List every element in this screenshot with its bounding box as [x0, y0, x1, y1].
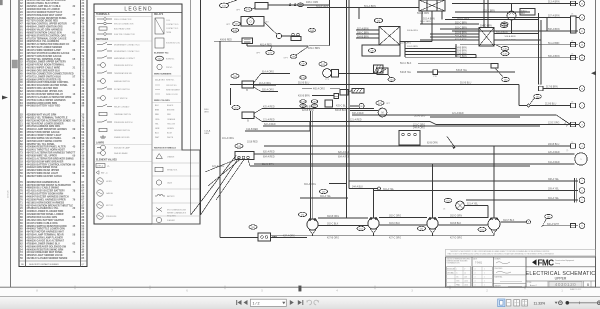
wire 427 bus [309, 230, 312, 234]
svg-text:408-C ORN: 408-C ORN [306, 2, 318, 4]
svg-text:BULKHEAD CONN: BULKHEAD CONN [114, 27, 131, 30]
svg-text:SERIAL NOS.: SERIAL NOS. [167, 169, 178, 172]
proprietary notice box [446, 249, 596, 256]
svg-text:425-A RED: 425-A RED [263, 106, 275, 109]
zoom slider mid tick [579, 302, 581, 305]
relay K1 box [255, 3, 268, 10]
connector pin 13 [579, 15, 585, 21]
wire diagonal bus B to key switch [200, 158, 239, 216]
svg-text:304-A ORG: 304-A ORG [304, 183, 316, 186]
wire vertical 409 [329, 0, 331, 46]
svg-text:62-B ORN: 62-B ORN [427, 142, 438, 144]
zone numbers [36, 289, 563, 292]
drawing number 4030120 [549, 282, 582, 287]
relay K2 [419, 0, 445, 11]
component box under K3 [362, 45, 400, 56]
connector 134 [219, 3, 228, 8]
svg-text:303-B BLK: 303-B BLK [450, 223, 462, 225]
wire 517-B BRN [539, 86, 544, 91]
pin box P10 [571, 1, 576, 5]
connector 146 [231, 28, 238, 32]
zoom dropdown arrow [555, 302, 558, 304]
svg-text:ORANGE: ORANGE [167, 118, 176, 121]
svg-text:GREEN: GREEN [167, 128, 174, 130]
wire 120-A RED [254, 153, 575, 155]
wire 503-B BRN [430, 33, 479, 35]
svg-text:510-C BLK: 510-C BLK [400, 63, 412, 65]
svg-text:ORG: ORG [204, 133, 209, 135]
legend outer box [94, 4, 200, 224]
lamp L4 [488, 218, 500, 230]
wire 506-B BRN [405, 56, 476, 58]
svg-text:LAMPS: LAMPS [96, 142, 105, 145]
svg-text:121-A RED: 121-A RED [263, 119, 275, 122]
connector 133 [309, 28, 316, 32]
connector 144 [374, 18, 382, 22]
svg-text:OPT: OPT [226, 24, 231, 26]
wire horn to node A [264, 22, 277, 34]
wire 425-A RED [254, 109, 262, 114]
left margin arrow [2, 96, 8, 100]
svg-text:513-B BLU: 513-B BLU [414, 115, 426, 117]
svg-text:920-A ORG: 920-A ORG [262, 89, 274, 92]
fuse FU1 [571, 16, 577, 33]
svg-text:308-A YEL: 308-A YEL [548, 178, 560, 181]
svg-text:420-B BRN: 420-B BRN [298, 96, 310, 98]
svg-text:ORG: ORG [155, 119, 160, 121]
svg-text:CODE: CODE [527, 282, 531, 284]
svg-text:Group: Group [555, 263, 560, 265]
svg-text:1 / 2: 1 / 2 [253, 302, 260, 306]
svg-text:MU: MU [266, 22, 270, 24]
svg-text:OPT: OPT [284, 57, 289, 59]
wire 505-A BRN [494, 39, 541, 41]
svg-text:507-A BRN: 507-A BRN [548, 15, 560, 18]
svg-text:PRESSURE SWITCH: PRESSURE SWITCH [114, 122, 133, 124]
svg-text:508-C BRN: 508-C BRN [357, 32, 369, 34]
wire from 134 up [227, 0, 237, 4]
center fold mark [299, 286, 302, 291]
svg-text:604-A RED: 604-A RED [338, 156, 350, 159]
svg-text:502-A BRN: 502-A BRN [423, 17, 435, 20]
svg-text:TERM: TERM [166, 32, 172, 34]
svg-text:501-A ORN: 501-A ORN [316, 5, 328, 8]
svg-text:RED: RED [155, 114, 160, 116]
wire 502-B BRN [420, 39, 479, 41]
connector pin 11 [579, 28, 585, 34]
left margin fold blob [12, 60, 18, 68]
lamp vertical feeds [373, 189, 375, 218]
wire 503-C BRN2 [440, 28, 479, 30]
nav prev page button [244, 300, 248, 305]
svg-text:302-C ORG: 302-C ORG [389, 216, 401, 218]
wire 508-C BRN [356, 33, 379, 35]
connector pin 2 [579, 103, 585, 109]
svg-text:ROTARY SWITCH: ROTARY SWITCH [114, 88, 130, 91]
connector 151 [418, 226, 426, 230]
wire 304-A YEL left [300, 197, 348, 199]
arrow diag S3 [447, 137, 455, 148]
zoom slider knob [566, 301, 569, 304]
connector 136 [300, 76, 306, 80]
wire 521-A YEL [464, 205, 488, 207]
nav next page button [290, 300, 294, 305]
svg-text:503-B BRN: 503-B BRN [455, 32, 467, 34]
svg-text:4443692 BATTERY ASSY RED: 4443692 BATTERY ASSY RED [27, 105, 61, 108]
connector 118 [249, 225, 257, 229]
svg-text:614-A ORG: 614-A ORG [262, 71, 274, 74]
wire K4 to 148 [494, 44, 502, 48]
svg-text:7-9-81: 7-9-81 [475, 262, 483, 265]
relay K4 legs [483, 0, 485, 28]
svg-text:GRN: GRN [155, 128, 160, 130]
vertical 519 [518, 85, 520, 106]
svg-text:BLU: BLU [155, 133, 159, 135]
wire 465-A ORG [330, 88, 340, 90]
svg-text:SEALED BEAM: SEALED BEAM [114, 152, 128, 155]
connector 148 [501, 46, 509, 50]
wire 503-C BRN [455, 11, 530, 13]
nav first page button [236, 300, 241, 305]
connector 166 [478, 227, 486, 231]
svg-text:-()-: -()- [107, 166, 110, 168]
wire 121-A RED [262, 121, 430, 123]
svg-text:SPLICE CONNECTOR: SPLICE CONNECTOR [114, 23, 134, 25]
zoom slider track [567, 302, 597, 304]
svg-text:PIN NO.: PIN NO. [166, 67, 173, 69]
wire 507-A BRN [356, 29, 379, 31]
lamp L3 [427, 218, 438, 229]
connector 148a [368, 49, 375, 53]
junction node B [527, 104, 530, 107]
wire vertical pair mid A [346, 0, 348, 218]
wire 513-A BRN [452, 3, 578, 5]
svg-text:427-C ORG: 427-C ORG [389, 238, 401, 240]
connector pin 4 [579, 143, 585, 149]
svg-text:504-B BRN: 504-B BRN [357, 36, 369, 38]
legend column divider [151, 13, 153, 225]
motor M2 [378, 108, 387, 117]
vertical breaker down [230, 88, 232, 105]
wire 309-A YEL [374, 189, 578, 191]
svg-text:MOMENTARY CONTACT N.C.: MOMENTARY CONTACT N.C. [114, 50, 140, 53]
wire F1 up [511, 4, 513, 12]
svg-text:MOMENTARY CONTACT N.O.: MOMENTARY CONTACT N.O. [114, 43, 140, 46]
wire 608-A RED [352, 114, 556, 116]
connector CN5 [491, 64, 498, 69]
svg-text:.X: .X [456, 273, 457, 275]
wire 123C ORG [436, 124, 578, 126]
svg-text:622-A RED: 622-A RED [264, 123, 276, 126]
vertical join 476 [475, 55, 477, 58]
title block frame [446, 257, 596, 287]
svg-text:506-A BRN: 506-A BRN [505, 35, 516, 38]
pin link 123C [564, 123, 566, 125]
svg-text:M: M [382, 112, 384, 115]
view continuous [506, 300, 511, 306]
connector 137 [319, 62, 327, 66]
wire 303-B BLK [438, 224, 488, 226]
svg-text:309-A YEL: 309-A YEL [548, 188, 560, 191]
vertical 541 [540, 20, 542, 85]
svg-text:OPT: OPT [256, 53, 261, 55]
connector 167 [545, 214, 553, 218]
svg-text:L E G E N D: L E G E N D [124, 7, 152, 13]
right margin fold arrow [591, 71, 596, 75]
svg-text:REQUIRED: REQUIRED [167, 216, 177, 218]
svg-text:600-B BLK: 600-B BLK [335, 110, 347, 112]
svg-text:508-A BRN: 508-A BRN [548, 28, 560, 31]
svg-text:B: B [587, 283, 589, 287]
relay K4 [479, 28, 494, 47]
svg-text:510-B BLU: 510-B BLU [298, 83, 310, 85]
svg-text:WHITE: WHITE [167, 137, 174, 139]
svg-text:211-B ORN: 211-B ORN [262, 164, 274, 166]
svg-text:±.010: ±.010 [464, 281, 468, 283]
svg-text:302-B ORG: 302-B ORG [327, 216, 339, 218]
svg-text:FLASHER: FLASHER [167, 219, 176, 222]
svg-text:PRESSURE: PRESSURE [106, 216, 117, 218]
connector 117 [232, 105, 240, 109]
svg-text:4024813 FLASHER SENDER SENDE: 4024813 FLASHER SENDER SENDE [27, 257, 68, 260]
connector pin 14 [579, 42, 585, 48]
wire 406 bottom horizontal [220, 236, 258, 238]
view single page (active) [498, 299, 505, 307]
svg-text:FOOT SWITCH: FOOT SWITCH [114, 98, 128, 100]
svg-text:503-D BRN: 503-D BRN [407, 46, 418, 48]
legend revision symbols column [152, 148, 200, 225]
connector 143 [500, 23, 508, 27]
connector 130 [311, 100, 317, 104]
wire 511-A BRN [460, 44, 578, 46]
svg-text:WIRE NO.: WIRE NO. [166, 80, 175, 82]
sheet left border [10, 0, 12, 287]
svg-text:.XXX: .XXX [456, 281, 459, 283]
lamp L1 [307, 219, 318, 230]
wire 505-B BRN [405, 51, 456, 53]
svg-text:4892697 WIRE HEATER CABLE: 4892697 WIRE HEATER CABLE [27, 175, 63, 178]
hatch box X2 [374, 65, 384, 73]
motor M1 small [359, 103, 364, 108]
vertical K2 mid leg [441, 11, 443, 20]
connector 153 [444, 198, 452, 202]
svg-text:620-A RED: 620-A RED [338, 151, 350, 154]
svg-text:CONTACT N.C.: CONTACT N.C. [166, 27, 179, 30]
wire F1 box link [516, 11, 520, 13]
svg-text:UNLESS OTHERWISE SPECIFIED: UNLESS OTHERWISE SPECIFIED [447, 258, 472, 260]
connector pin 1 (large) [575, 153, 587, 165]
wire 507-A BRN right [452, 17, 571, 19]
sheet right border [595, 0, 597, 287]
wire 138 to 409 [296, 47, 309, 56]
wire 200-B BLU [264, 145, 571, 147]
wire 501-A ORN [307, 7, 419, 9]
svg-text:120-A RED: 120-A RED [548, 151, 560, 154]
wire 344-A BLK [349, 188, 377, 190]
vertical pair to lamp L1 [310, 111, 312, 219]
svg-text:8: 8 [528, 222, 529, 224]
svg-text:425-C BLK: 425-C BLK [336, 106, 348, 108]
wire vertical bus left A [190, 0, 192, 215]
svg-text:121-C ORG: 121-C ORG [413, 124, 425, 126]
svg-text:506-A BRN: 506-A BRN [548, 55, 560, 58]
svg-text:CHANGE: CHANGE [167, 156, 175, 159]
svg-text:WIRE NUMBERS: WIRE NUMBERS [154, 74, 172, 76]
key switch fan wires [205, 160, 236, 173]
connector 131 [300, 104, 306, 108]
svg-text:BAT - (): BAT - () [101, 172, 108, 175]
wire 504-A BRN [494, 33, 539, 35]
wire 213-A ORG [254, 84, 277, 86]
svg-text:517-B BRN: 517-B BRN [546, 87, 558, 89]
svg-text:±1/16: ±1/16 [464, 285, 468, 287]
connector 141 [388, 78, 395, 82]
svg-text:507-B BRN: 507-B BRN [455, 53, 467, 55]
legend element values section [94, 159, 152, 220]
legend right column symbols [152, 13, 182, 139]
svg-text:213-A ORG: 213-A ORG [259, 82, 271, 85]
svg-text:BLACK: BLACK [167, 104, 174, 107]
rotate cw disabled [314, 300, 319, 305]
svg-text:DESCRIPTION/PART NUMBER: DESCRIPTION/PART NUMBER [29, 263, 59, 266]
flasher F1 [507, 11, 516, 20]
sheet bottom border [0, 286, 600, 288]
connector 174 [299, 212, 307, 216]
svg-text:YELLOW: YELLOW [167, 123, 175, 125]
svg-text:±.1: ±.1 [464, 273, 466, 275]
svg-text:A-ren C: A-ren C [530, 284, 537, 287]
svg-text:SHEET 1 OF 2: SHEET 1 OF 2 [570, 289, 581, 291]
wire 481-A RED [246, 44, 248, 47]
wire 504-B BRN [356, 37, 379, 39]
svg-text:BLK: BLK [521, 13, 526, 15]
zoom in button [597, 301, 600, 305]
rotate ccw disabled [307, 300, 312, 305]
svg-text:504-C BRN: 504-C BRN [420, 21, 431, 23]
svg-text:101-A ORG: 101-A ORG [222, 137, 234, 140]
svg-text:GAUGE: GAUGE [106, 192, 114, 195]
svg-text:344-A ORG: 344-A ORG [413, 127, 425, 130]
svg-text:546-B YEL: 546-B YEL [400, 72, 412, 74]
page box dropdown arrow [282, 302, 285, 304]
svg-text:502-B BRN: 502-B BRN [455, 40, 467, 42]
lamp L2 [368, 218, 379, 229]
box 508-C BLK [520, 9, 535, 16]
connector pin 15 [579, 55, 585, 61]
connector pin 6 [579, 188, 585, 194]
node B8 [527, 220, 531, 224]
connector 128 [300, 100, 306, 104]
svg-text:ORG: ORG [204, 112, 209, 114]
svg-text:HORN: HORN [106, 181, 112, 183]
svg-text:TEMPERATURE SW: TEMPERATURE SW [114, 72, 132, 75]
wire 504-B BRN2 [405, 48, 456, 50]
connector 160 [534, 94, 542, 98]
pin box P2 [571, 103, 576, 107]
wire 303-F BLK [379, 224, 427, 226]
svg-text:COIL: COIL [166, 20, 170, 22]
svg-text:501-C ORG: 501-C ORG [457, 18, 469, 20]
svg-text:344-A RED: 344-A RED [548, 161, 560, 164]
wire 506-A BRN [460, 57, 578, 59]
svg-text:510-B BLU: 510-B BLU [460, 83, 472, 85]
connector pin 5 [579, 197, 585, 203]
wire vertical bus left B [199, 0, 201, 215]
svg-text:SENDER SWITCH: SENDER SWITCH [114, 130, 130, 132]
connector 149 [501, 51, 509, 55]
page number box [250, 299, 286, 306]
wire diagonal bus A to key switch [191, 156, 236, 216]
svg-text:4030120: 4030120 [8, 189, 10, 198]
svg-text:WEIGHT: WEIGHT [495, 285, 501, 287]
wire 302-D ORN [438, 217, 488, 219]
horn H2 [323, 69, 332, 78]
wire 344-A RED [254, 163, 575, 165]
svg-text:121-A RED: 121-A RED [452, 112, 464, 115]
wire 302-B ORG [318, 217, 368, 219]
pin box P14 [571, 43, 576, 47]
svg-text:SPLIT DIMENSION LINE: SPLIT DIMENSION LINE [167, 210, 187, 212]
wire 302-H BLK [501, 221, 527, 223]
svg-text:MANUAL SWITCH: MANUAL SWITCH [114, 80, 130, 83]
svg-text:4030120: 4030120 [555, 282, 576, 287]
svg-text:WIRE COLORS: WIRE COLORS [154, 100, 170, 102]
svg-text:.XX: .XX [456, 277, 458, 279]
tolerance table [447, 267, 471, 287]
wire 614-A ORG [254, 74, 262, 84]
vertical K2 left leg [421, 11, 423, 24]
svg-text:CONTACT N.O.: CONTACT N.O. [166, 23, 179, 26]
view continuous facing [522, 300, 528, 306]
wire vertical pair mid B [348, 0, 350, 189]
junction box J2 [258, 233, 271, 241]
breaker CB2 [242, 112, 254, 119]
terminal stack T1 [334, 94, 339, 99]
svg-text:ELEMENT VALUES: ELEMENT VALUES [96, 159, 117, 162]
wire vertical to K3 [358, 8, 360, 20]
connector pin 3 [579, 122, 585, 128]
pin box P15 [571, 56, 576, 60]
svg-text:304-A YEL: 304-A YEL [383, 188, 395, 191]
wire 304-A YEL right [466, 199, 578, 201]
svg-text:502-B ORN: 502-B ORN [417, 13, 429, 15]
svg-text:RELAYS: RELAYS [154, 13, 164, 16]
svg-text:CIRCUIT NO.: CIRCUIT NO. [166, 85, 177, 87]
wire 508-A BRN [452, 30, 578, 32]
wire 425-B BRN [300, 108, 374, 110]
svg-text:BROWN: BROWN [167, 110, 175, 112]
svg-text:PRESSURE SWITCH: PRESSURE SWITCH [114, 65, 133, 67]
hatch box X1 [352, 89, 364, 94]
top-left corner mark [0, 0, 3, 5]
connector 152 [357, 226, 365, 230]
svg-text:604-A RED: 604-A RED [263, 155, 275, 158]
box PTB [433, 70, 438, 75]
svg-text:423-B BRN: 423-B BRN [302, 110, 314, 112]
svg-text:620-A RED: 620-A RED [263, 151, 275, 154]
svg-text:11.33%: 11.33% [534, 301, 546, 305]
wire 409-C BRN [309, 45, 330, 47]
vertical 405 leg [404, 42, 406, 58]
svg-text:608-A RED: 608-A RED [352, 112, 364, 115]
svg-text:YEL: YEL [155, 123, 159, 125]
svg-text:RING CONNECTOR: RING CONNECTOR [114, 19, 132, 21]
svg-text:304-A YEL: 304-A YEL [548, 197, 560, 200]
svg-text:121-A RED: 121-A RED [350, 119, 362, 122]
wire 302-C BLK [318, 225, 368, 227]
svg-text:501-A BRN: 501-A BRN [364, 5, 376, 8]
svg-text:BATTERY: BATTERY [167, 195, 176, 198]
